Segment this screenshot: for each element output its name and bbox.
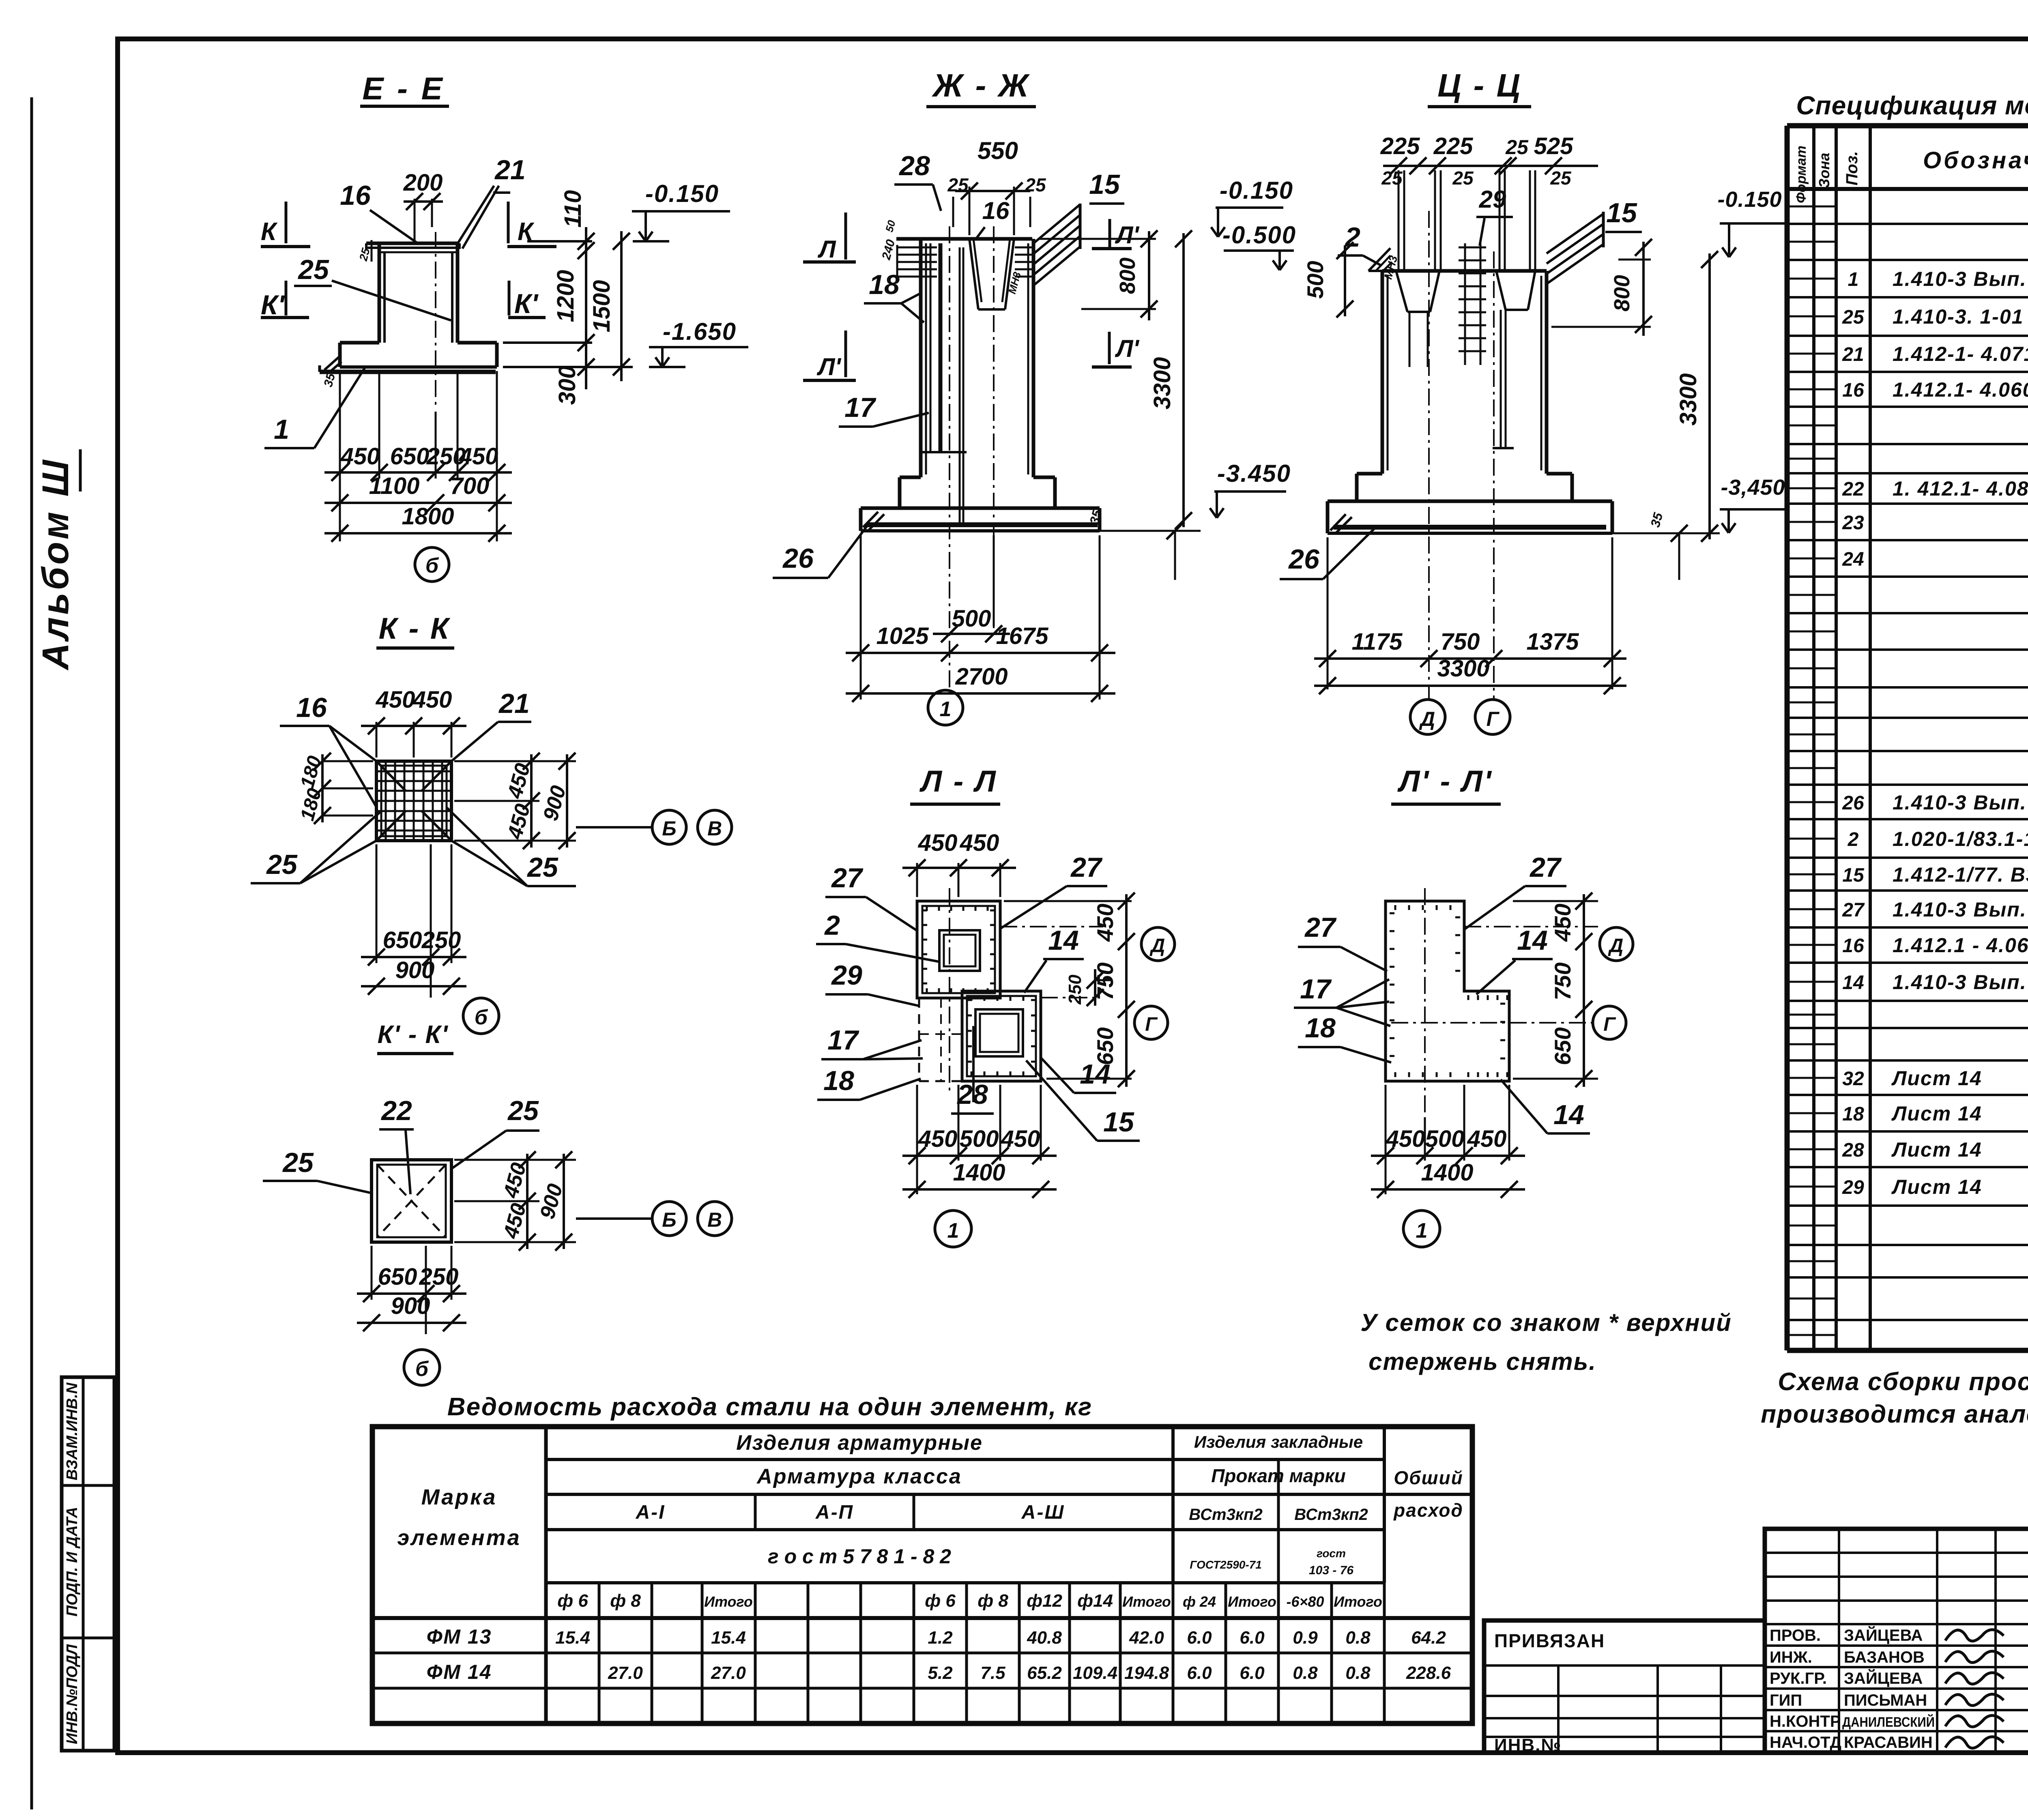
svg-text:103 - 76: 103 - 76 <box>1309 1564 1353 1577</box>
svg-text:ВСт3кп2: ВСт3кп2 <box>1189 1506 1263 1524</box>
svg-text:26: 26 <box>1842 792 1864 814</box>
svg-text:15: 15 <box>1089 169 1120 200</box>
svg-text:Л': Л' <box>816 353 841 380</box>
svg-text:У сеток со знаком * верхний: У сеток со знаком * верхний <box>1360 1309 1732 1336</box>
svg-text:А-I: А-I <box>636 1502 666 1523</box>
svg-text:Ц - Ц: Ц - Ц <box>1437 67 1522 103</box>
svg-text:28: 28 <box>1842 1140 1864 1161</box>
svg-text:42.0: 42.0 <box>1129 1628 1164 1648</box>
svg-text:18: 18 <box>823 1065 854 1096</box>
svg-text:расход: расход <box>1393 1500 1463 1521</box>
svg-text:750: 750 <box>1550 962 1575 1000</box>
svg-text:К - К: К - К <box>379 612 451 645</box>
svg-text:25: 25 <box>526 852 559 883</box>
svg-text:0.8: 0.8 <box>1293 1663 1318 1683</box>
svg-text:2: 2 <box>824 910 840 941</box>
svg-text:К: К <box>261 218 278 246</box>
svg-text:14: 14 <box>1080 1059 1111 1090</box>
svg-text:К': К' <box>514 288 539 319</box>
svg-text:1400: 1400 <box>953 1159 1005 1186</box>
svg-text:25: 25 <box>1381 167 1403 189</box>
svg-text:РУК.ГР.: РУК.ГР. <box>1770 1670 1827 1687</box>
svg-text:25: 25 <box>507 1095 539 1126</box>
svg-text:Г: Г <box>1487 708 1500 730</box>
svg-text:1.412-1- 4.071: 1.412-1- 4.071 <box>1893 343 2028 365</box>
svg-text:650: 650 <box>378 1264 417 1290</box>
svg-text:18: 18 <box>869 269 900 300</box>
svg-text:40.8: 40.8 <box>1027 1628 1062 1648</box>
svg-text:ИНВ.№: ИНВ.№ <box>1494 1735 1562 1755</box>
svg-text:Лист 14: Лист 14 <box>1891 1102 1982 1125</box>
svg-text:элемента: элемента <box>397 1526 521 1550</box>
svg-text:27: 27 <box>831 863 864 893</box>
svg-text:1: 1 <box>947 1219 959 1243</box>
svg-text:-0.150: -0.150 <box>645 180 719 207</box>
svg-text:КРАСАВИН: КРАСАВИН <box>1844 1734 1933 1751</box>
svg-text:14: 14 <box>1553 1099 1584 1130</box>
svg-text:450: 450 <box>1467 1126 1507 1152</box>
svg-text:450: 450 <box>918 1126 958 1152</box>
svg-text:15: 15 <box>1842 865 1865 886</box>
svg-text:16: 16 <box>296 692 327 723</box>
svg-text:ф 8: ф 8 <box>610 1591 641 1611</box>
svg-text:17: 17 <box>827 1025 859 1056</box>
svg-text:Арматура класса: Арматура класса <box>756 1465 962 1488</box>
svg-text:22: 22 <box>380 1095 412 1126</box>
svg-text:450: 450 <box>1386 1126 1425 1152</box>
svg-text:22: 22 <box>1842 479 1864 500</box>
svg-text:0.8: 0.8 <box>1345 1663 1371 1683</box>
svg-text:Д: Д <box>1419 708 1435 730</box>
svg-text:25: 25 <box>1842 307 1865 328</box>
svg-text:18: 18 <box>1305 1013 1336 1043</box>
svg-text:450: 450 <box>459 443 498 470</box>
svg-text:В: В <box>707 817 722 840</box>
svg-text:1400: 1400 <box>1421 1159 1473 1186</box>
svg-text:ФМ 14: ФМ 14 <box>427 1661 492 1683</box>
svg-text:Итого: Итого <box>704 1593 753 1610</box>
svg-text:1: 1 <box>1416 1219 1428 1243</box>
svg-text:1.020-1/83.1-1 0.30-01: 1.020-1/83.1-1 0.30-01 <box>1893 828 2028 850</box>
svg-text:450: 450 <box>1001 1126 1040 1152</box>
svg-text:Марка: Марка <box>421 1485 497 1509</box>
svg-text:23: 23 <box>1842 512 1864 534</box>
svg-text:1375: 1375 <box>1526 629 1579 655</box>
svg-text:1. 412.1- 4.081: 1. 412.1- 4.081 <box>1893 477 2028 500</box>
svg-text:25: 25 <box>282 1147 314 1178</box>
svg-text:16: 16 <box>1842 380 1864 401</box>
svg-text:25: 25 <box>1452 167 1474 189</box>
svg-text:ф 6: ф 6 <box>557 1591 588 1611</box>
svg-text:450: 450 <box>1092 904 1118 942</box>
svg-text:Поз.: Поз. <box>1843 151 1861 186</box>
svg-text:Формат: Формат <box>1794 146 1809 203</box>
svg-text:25: 25 <box>947 174 969 195</box>
svg-text:ПРИВЯЗАН: ПРИВЯЗАН <box>1494 1630 1605 1651</box>
svg-text:Прокат марки: Прокат марки <box>1211 1465 1346 1486</box>
svg-text:27: 27 <box>1842 899 1865 921</box>
svg-text:25: 25 <box>297 254 329 285</box>
svg-text:ИНЖ.: ИНЖ. <box>1770 1648 1812 1666</box>
svg-text:1675: 1675 <box>996 623 1048 649</box>
svg-text:26: 26 <box>782 543 814 574</box>
svg-text:750: 750 <box>1092 962 1118 1000</box>
svg-text:750: 750 <box>1441 629 1480 655</box>
svg-text:1175: 1175 <box>1352 629 1403 655</box>
svg-text:ф14: ф14 <box>1077 1591 1113 1611</box>
svg-text:ЗАЙЦЕВА: ЗАЙЦЕВА <box>1844 1669 1923 1687</box>
svg-text:450: 450 <box>918 830 958 856</box>
svg-text:Спецификация монолитных фундам: Спецификация монолитных фундаментовВ ФМ1… <box>1796 91 2028 120</box>
svg-text:Ж - Ж: Ж - Ж <box>931 67 1030 103</box>
svg-text:450: 450 <box>376 687 415 713</box>
svg-text:225: 225 <box>1433 133 1474 159</box>
svg-text:18: 18 <box>1842 1103 1864 1125</box>
svg-text:1.410-3 Вып. 1: 1.410-3 Вып. 1 <box>1893 898 2028 921</box>
svg-text:27.0: 27.0 <box>608 1663 643 1683</box>
svg-text:Г: Г <box>1145 1014 1158 1035</box>
svg-text:200: 200 <box>403 170 443 196</box>
svg-text:Б: Б <box>662 1208 676 1231</box>
svg-text:2: 2 <box>1848 829 1859 850</box>
svg-text:НАЧ.ОТД: НАЧ.ОТД <box>1770 1734 1841 1751</box>
svg-text:225: 225 <box>1380 133 1420 159</box>
svg-text:-3.450: -3.450 <box>1217 460 1291 487</box>
svg-text:650: 650 <box>383 927 422 953</box>
svg-text:Зона: Зона <box>1816 153 1833 188</box>
svg-text:15: 15 <box>1103 1107 1134 1137</box>
svg-text:900: 900 <box>395 957 435 983</box>
svg-text:-0.500: -0.500 <box>1222 221 1296 249</box>
svg-text:3300: 3300 <box>1149 357 1175 409</box>
svg-text:ГОСТ2590-71: ГОСТ2590-71 <box>1190 1558 1262 1571</box>
svg-text:-3,450: -3,450 <box>1721 475 1785 500</box>
svg-text:7.5: 7.5 <box>980 1663 1005 1683</box>
svg-text:15: 15 <box>1606 197 1637 228</box>
svg-text:Итого: Итого <box>1228 1593 1276 1610</box>
svg-text:525: 525 <box>1534 133 1574 159</box>
svg-text:650: 650 <box>1550 1027 1575 1065</box>
svg-text:64.2: 64.2 <box>1411 1628 1446 1648</box>
svg-text:1800: 1800 <box>402 503 454 530</box>
svg-text:450: 450 <box>340 443 380 470</box>
svg-text:29: 29 <box>1842 1177 1864 1198</box>
svg-text:1500: 1500 <box>589 280 615 332</box>
svg-text:194.8: 194.8 <box>1124 1663 1169 1683</box>
svg-text:стержень снять.: стержень снять. <box>1368 1348 1596 1375</box>
svg-text:1.410-3 Вып. 1: 1.410-3 Вып. 1 <box>1893 971 2028 994</box>
svg-text:15.4: 15.4 <box>711 1628 746 1648</box>
svg-text:Альбом Ш: Альбом Ш <box>35 457 76 670</box>
svg-text:Ведомость расхода стали на оди: Ведомость расхода стали на один элемент,… <box>447 1393 1092 1421</box>
svg-text:Лист 14: Лист 14 <box>1891 1138 1982 1161</box>
svg-text:500: 500 <box>960 1126 999 1152</box>
svg-text:б: б <box>475 1006 488 1029</box>
svg-text:1: 1 <box>940 698 952 721</box>
svg-text:1.412.1 - 4.060: 1.412.1 - 4.060 <box>1893 934 2028 957</box>
svg-text:1.410-3 Вып. 1: 1.410-3 Вып. 1 <box>1893 791 2028 814</box>
svg-text:1.412.1- 4.060: 1.412.1- 4.060 <box>1893 378 2028 401</box>
svg-text:1025: 1025 <box>876 623 929 649</box>
svg-text:-0.150: -0.150 <box>1220 177 1293 204</box>
svg-text:Итого: Итого <box>1334 1593 1382 1610</box>
svg-text:900: 900 <box>391 1293 430 1319</box>
svg-text:25: 25 <box>1025 174 1046 195</box>
svg-text:26: 26 <box>1288 544 1320 575</box>
svg-text:6.0: 6.0 <box>1240 1663 1265 1683</box>
svg-text:0.8: 0.8 <box>1345 1628 1371 1648</box>
svg-text:14: 14 <box>1048 925 1079 956</box>
svg-text:Е - Е: Е - Е <box>362 71 445 106</box>
svg-text:110: 110 <box>560 190 586 227</box>
svg-text:6.0: 6.0 <box>1187 1628 1212 1648</box>
svg-text:450: 450 <box>960 830 999 856</box>
svg-text:ф 6: ф 6 <box>925 1591 956 1611</box>
svg-text:Н.КОНТР: Н.КОНТР <box>1770 1713 1841 1730</box>
svg-text:16: 16 <box>340 180 371 211</box>
svg-text:г о с т 5 7 8 1 - 8 2: г о с т 5 7 8 1 - 8 2 <box>768 1545 951 1568</box>
svg-text:550: 550 <box>977 137 1018 164</box>
svg-text:Схема сборки пространственного: Схема сборки пространственного каркаса <box>1778 1368 2028 1396</box>
svg-text:ПОДП. И ДАТА: ПОДП. И ДАТА <box>64 1507 81 1616</box>
svg-text:Итого: Итого <box>1122 1593 1171 1610</box>
svg-text:1.410-3 Вып. 1: 1.410-3 Вып. 1 <box>1893 268 2028 290</box>
svg-text:250: 250 <box>1065 974 1085 1005</box>
svg-text:21: 21 <box>494 155 526 185</box>
svg-text:Изделия закладные: Изделия закладные <box>1194 1432 1363 1451</box>
svg-text:ф12: ф12 <box>1027 1591 1062 1611</box>
svg-text:ВЗАМ.ИНВ.N: ВЗАМ.ИНВ.N <box>64 1382 81 1480</box>
svg-text:Л': Л' <box>1115 335 1139 362</box>
svg-text:-6×80: -6×80 <box>1286 1593 1324 1610</box>
svg-text:25: 25 <box>1550 167 1572 189</box>
svg-text:21: 21 <box>1842 344 1864 365</box>
svg-text:ДАНИЛЕВСКИЙ: ДАНИЛЕВСКИЙ <box>1842 1714 1935 1730</box>
svg-text:29: 29 <box>831 960 862 991</box>
svg-text:Лист 14: Лист 14 <box>1891 1176 1982 1198</box>
svg-text:0.9: 0.9 <box>1293 1628 1318 1648</box>
svg-text:В: В <box>707 1208 722 1231</box>
svg-text:гост: гост <box>1317 1547 1346 1560</box>
svg-text:Л': Л' <box>1115 221 1139 249</box>
svg-text:14: 14 <box>1842 972 1864 994</box>
svg-text:ИНВ.№ПОДЛ: ИНВ.№ПОДЛ <box>64 1644 81 1744</box>
svg-text:300: 300 <box>554 366 580 405</box>
svg-text:б: б <box>415 1357 429 1381</box>
svg-text:А-Ш: А-Ш <box>1021 1502 1065 1523</box>
svg-text:А-П: А-П <box>815 1502 854 1523</box>
svg-text:109.4: 109.4 <box>1073 1663 1117 1683</box>
svg-text:650: 650 <box>390 443 430 470</box>
svg-text:3300: 3300 <box>1675 373 1701 425</box>
svg-text:32: 32 <box>1842 1068 1864 1090</box>
svg-text:ФМ 13: ФМ 13 <box>427 1625 492 1648</box>
svg-text:Лист 14: Лист 14 <box>1891 1067 1982 1090</box>
svg-text:25: 25 <box>266 849 298 880</box>
svg-text:16: 16 <box>982 197 1010 224</box>
svg-text:К': К' <box>261 290 286 320</box>
svg-text:Г: Г <box>1603 1014 1616 1035</box>
svg-text:250: 250 <box>419 1264 459 1290</box>
svg-text:1200: 1200 <box>552 270 579 322</box>
svg-text:16: 16 <box>1842 935 1864 957</box>
svg-text:2700: 2700 <box>955 663 1008 690</box>
svg-text:1100: 1100 <box>369 473 420 499</box>
svg-text:производится аналогично ФМ 12: производится аналогично ФМ 12 лист 13. <box>1761 1400 2028 1428</box>
svg-text:К' - К': К' - К' <box>378 1021 449 1049</box>
svg-text:27: 27 <box>1304 912 1337 943</box>
svg-text:3300: 3300 <box>1437 655 1489 682</box>
svg-text:800: 800 <box>1610 275 1634 311</box>
svg-text:500: 500 <box>952 605 991 632</box>
svg-text:1.412-1/77. В3-020: 1.412-1/77. В3-020 <box>1893 863 2028 886</box>
svg-text:1.410-3. 1-01: 1.410-3. 1-01 <box>1893 305 2024 328</box>
svg-text:ВСт3кп2: ВСт3кп2 <box>1294 1506 1368 1524</box>
svg-text:Д: Д <box>1608 935 1624 957</box>
svg-text:Изделия арматурные: Изделия арматурные <box>736 1431 983 1455</box>
svg-text:21: 21 <box>498 688 530 719</box>
svg-text:6.0: 6.0 <box>1240 1628 1265 1648</box>
svg-text:250: 250 <box>421 927 461 953</box>
svg-text:ПИСЬМАН: ПИСЬМАН <box>1844 1691 1927 1709</box>
svg-text:ф 24: ф 24 <box>1183 1593 1216 1610</box>
svg-text:Обозначение: Обозначение <box>1923 147 2028 174</box>
svg-text:700: 700 <box>450 473 490 499</box>
svg-text:Л: Л <box>817 236 836 263</box>
svg-text:1.2: 1.2 <box>928 1628 953 1648</box>
svg-text:29: 29 <box>1479 186 1506 213</box>
svg-text:65.2: 65.2 <box>1027 1663 1062 1683</box>
svg-text:17: 17 <box>1300 974 1332 1004</box>
svg-text:500: 500 <box>1425 1126 1465 1152</box>
svg-text:24: 24 <box>1842 549 1864 570</box>
svg-text:Л - Л: Л - Л <box>919 764 997 798</box>
svg-text:ГИП: ГИП <box>1770 1691 1802 1709</box>
svg-text:25: 25 <box>1505 136 1529 159</box>
svg-text:БАЗАНОВ: БАЗАНОВ <box>1844 1648 1925 1666</box>
svg-text:Д: Д <box>1149 935 1165 957</box>
svg-text:6.0: 6.0 <box>1187 1663 1212 1683</box>
svg-text:17: 17 <box>844 392 877 423</box>
svg-text:ф 8: ф 8 <box>977 1591 1008 1611</box>
svg-text:228.6: 228.6 <box>1406 1663 1451 1683</box>
svg-text:1: 1 <box>1848 269 1859 290</box>
svg-text:б: б <box>425 554 439 577</box>
svg-text:27: 27 <box>1070 852 1103 883</box>
svg-text:450: 450 <box>1550 904 1575 942</box>
svg-text:ЗАЙЦЕВА: ЗАЙЦЕВА <box>1844 1626 1923 1644</box>
svg-text:800: 800 <box>1115 258 1140 294</box>
svg-text:15.4: 15.4 <box>555 1628 590 1648</box>
svg-text:27: 27 <box>1529 852 1562 883</box>
svg-text:Б: Б <box>662 817 676 840</box>
svg-text:27.0: 27.0 <box>711 1663 746 1683</box>
svg-text:5.2: 5.2 <box>928 1663 953 1683</box>
svg-text:1: 1 <box>274 414 289 445</box>
svg-text:450: 450 <box>412 687 452 713</box>
svg-text:-0.150: -0.150 <box>1717 187 1782 212</box>
svg-text:500: 500 <box>1302 261 1328 298</box>
svg-text:Обший: Обший <box>1394 1467 1463 1488</box>
svg-text:ПРОВ.: ПРОВ. <box>1770 1627 1821 1644</box>
svg-text:28: 28 <box>898 150 930 181</box>
svg-text:14: 14 <box>1517 925 1548 956</box>
svg-text:-1.650: -1.650 <box>663 318 737 345</box>
svg-text:Л' - Л': Л' - Л' <box>1397 764 1493 798</box>
